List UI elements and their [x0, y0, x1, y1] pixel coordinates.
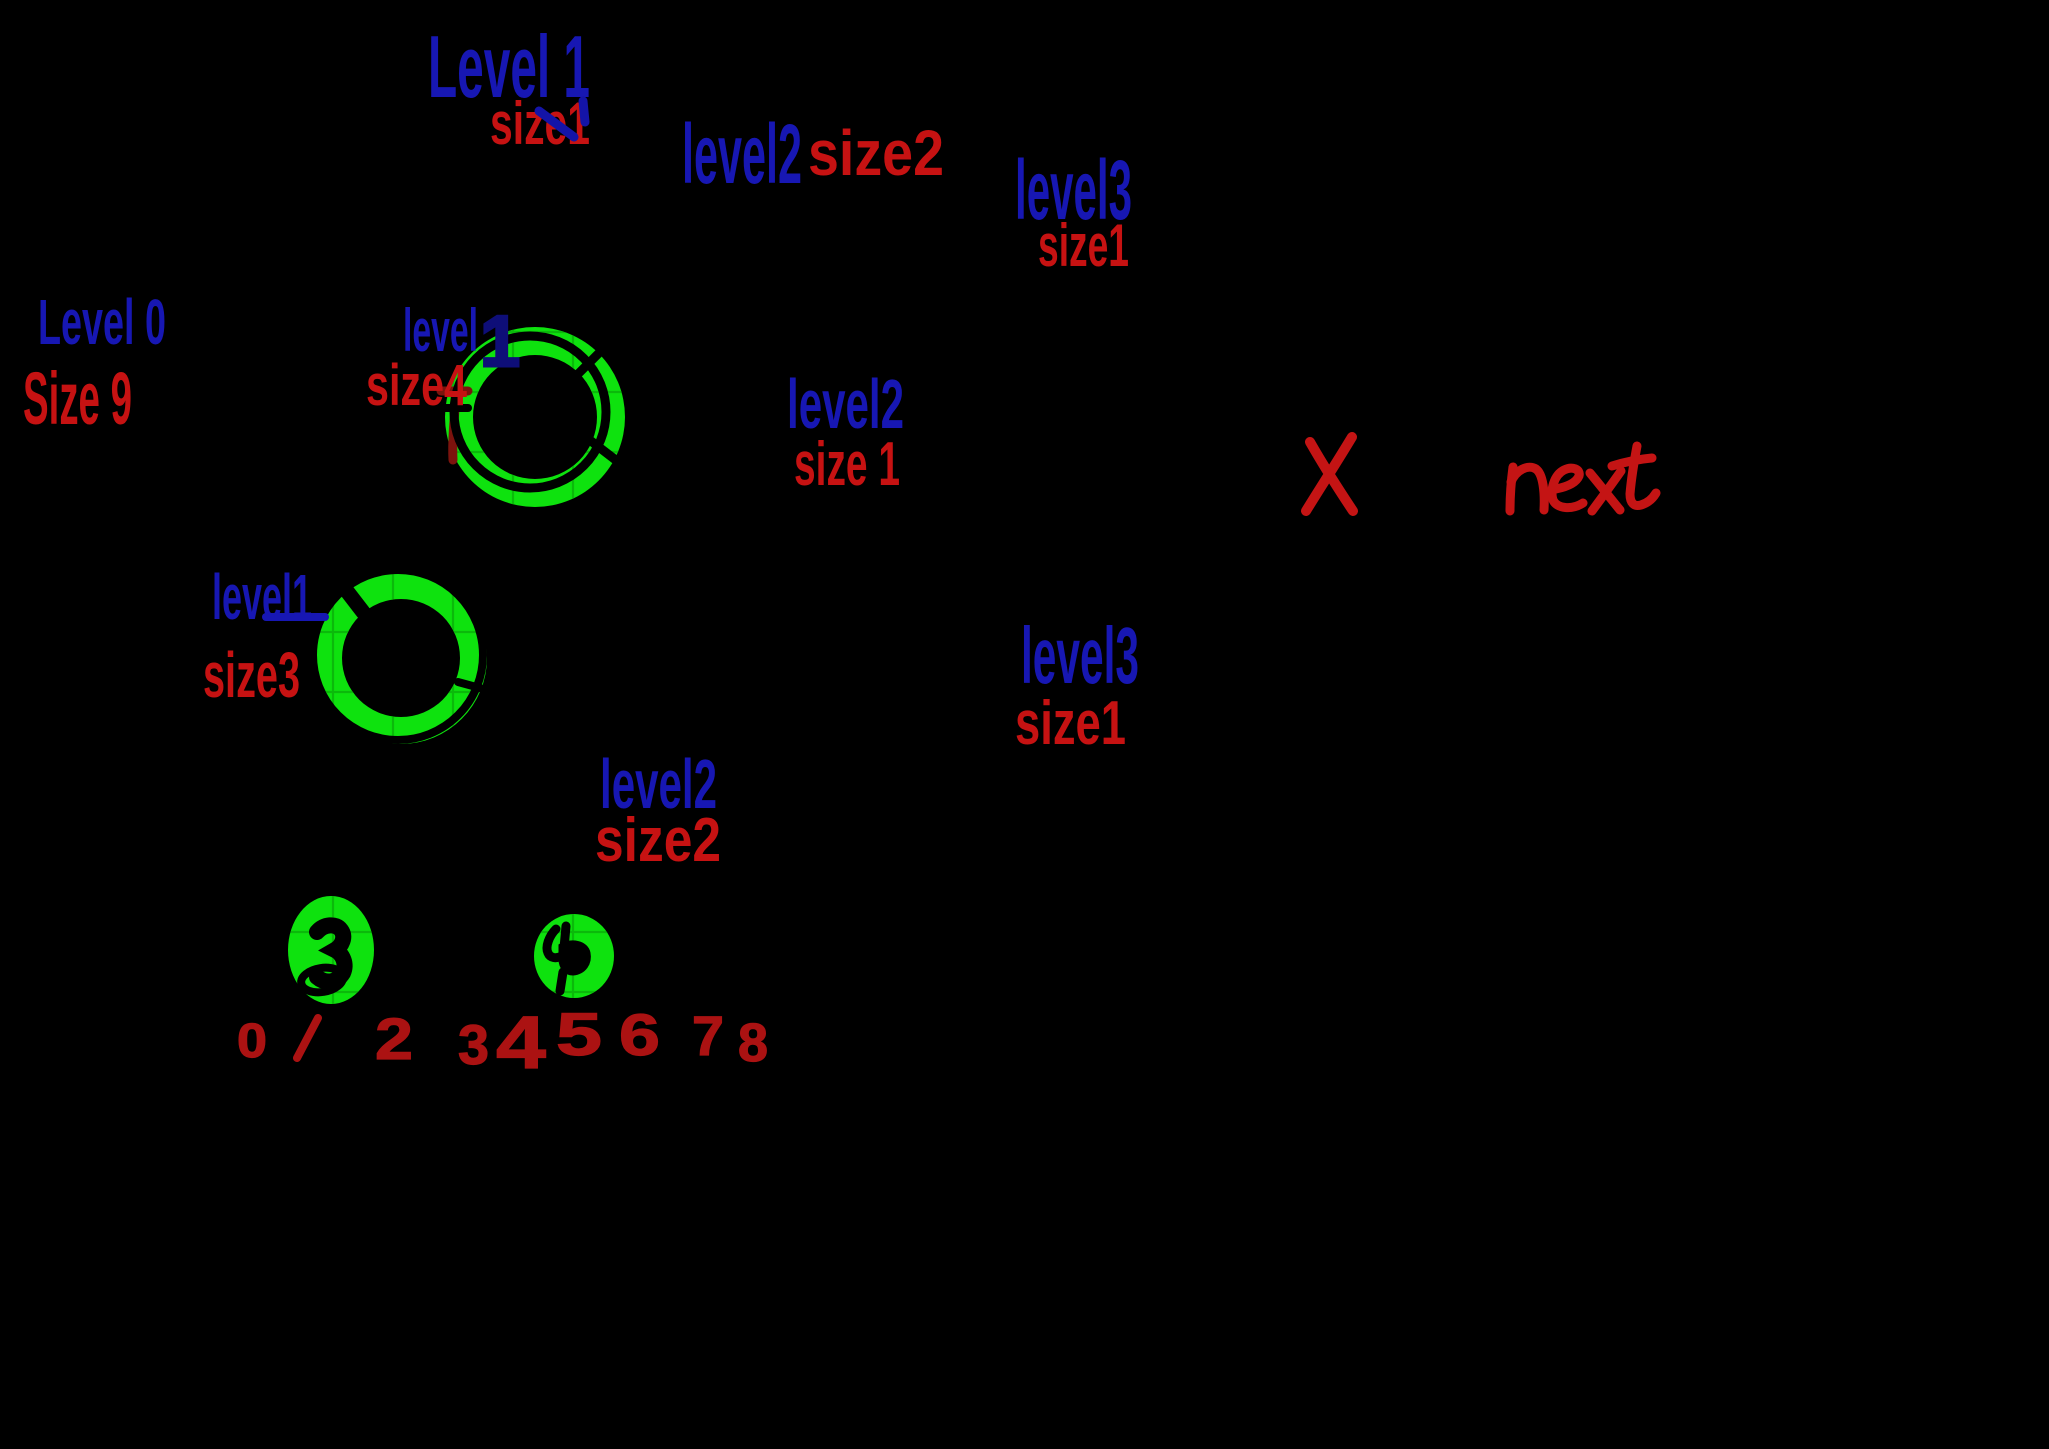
black tick: edge crossing ring2 right: [458, 682, 480, 688]
black ellipse loop under digit 3: [299, 965, 344, 995]
svg-text:size2: size2: [808, 117, 944, 189]
green ring node level1 size3 (highlight donut): [315, 572, 487, 744]
black pen circle of node level1-size3 (visible over green): [313, 570, 483, 740]
red X mark: [1306, 437, 1353, 511]
green blob highlight over digit 4: [534, 914, 614, 998]
svg-text:size4: size4: [366, 353, 467, 418]
green ring node level1 size4 (highlight donut): [445, 327, 625, 507]
svg-text:6: 6: [619, 1003, 660, 1068]
red label next (hand strokes): [1510, 446, 1656, 511]
svg-text:Size 9: Size 9: [23, 357, 132, 440]
svg-text:7: 7: [692, 1004, 724, 1067]
black digit 3 inside green blob1: [317, 925, 345, 981]
svg-text:size2: size2: [595, 806, 721, 875]
green blob highlight over digit 3: [288, 896, 374, 1004]
svg-text:level2: level2: [682, 107, 802, 201]
maroon tail of red 4 over ring1: [453, 398, 456, 460]
svg-text:level1: level1: [212, 561, 312, 633]
svg-text:size1: size1: [1015, 689, 1126, 758]
svg-text:size1: size1: [1038, 212, 1129, 279]
svg-text:8: 8: [738, 1013, 768, 1073]
svg-text:3: 3: [458, 1013, 489, 1076]
svg-text:5: 5: [556, 1001, 602, 1068]
svg-text:1: 1: [480, 302, 520, 382]
svg-text:size 1: size 1: [794, 430, 900, 499]
svg-text:2: 2: [375, 1007, 413, 1072]
svg-text:size1: size1: [490, 90, 590, 157]
svg-text:0: 0: [237, 1015, 267, 1068]
black gap wedge in ring2 upper-left: [343, 586, 363, 612]
svg-text:level3: level3: [1021, 611, 1139, 700]
blue underline under level1: [266, 613, 325, 621]
black digit 4 inside green blob2: [547, 929, 562, 958]
maroon crossbar of red 4 over ring1: [441, 387, 468, 396]
red digit 1 as slash: [297, 1018, 318, 1058]
svg-text:size3: size3: [203, 639, 300, 711]
faint grid lines visible through highlighter: [240, 280, 700, 1060]
black tick: edge crossing ring1 lower-right: [591, 441, 617, 461]
svg-text:4: 4: [496, 1001, 546, 1084]
black tick: edge crossing ring1 upper-right: [576, 351, 601, 376]
black pen circle of node level1-size4 (visible over green): [454, 336, 606, 488]
blue overlap strokes on size1: [539, 111, 574, 137]
svg-text:Level 0: Level 0: [38, 286, 166, 358]
black tick: edge crossing ring1 left: [444, 404, 468, 412]
